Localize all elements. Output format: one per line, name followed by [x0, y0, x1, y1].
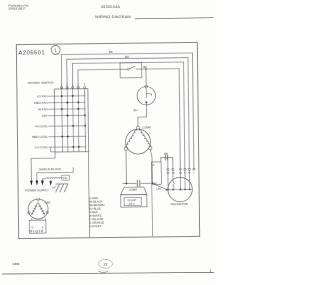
switch contact dots	[61, 95, 87, 148]
knob notch	[36, 199, 37, 202]
svg-text:MED COOL: MED COOL	[32, 135, 48, 139]
switch terminal numbers	[61, 84, 86, 86]
wire thermostat to dial	[145, 69, 147, 85]
wire row7 to box corner	[50, 147, 55, 152]
fan motor junction dots	[166, 189, 191, 191]
switch row MED COOL	[48, 135, 85, 137]
svg-text:MED FAN: MED FAN	[34, 101, 47, 105]
thermostat box	[120, 63, 142, 78]
svg-text:2: 2	[66, 84, 68, 86]
compressor terminal C	[124, 147, 127, 150]
fan motor winding squiggle	[173, 182, 175, 188]
svg-text:W: W	[188, 173, 191, 175]
svg-text:CH: CH	[63, 176, 67, 180]
wire compressor R down	[150, 150, 152, 183]
fan motor internal wires	[166, 170, 192, 189]
knob bottom terminals	[30, 230, 43, 233]
fan motor terminals	[167, 168, 195, 171]
switch row OFF	[48, 114, 85, 116]
svg-text:1: 1	[42, 225, 44, 229]
wire top run 3	[72, 62, 185, 171]
thermostat dial circle	[137, 86, 156, 105]
svg-text:5995315917: 5995315917	[9, 7, 26, 11]
svg-text:3: 3	[72, 84, 74, 86]
svg-text:OFF: OFF	[45, 201, 51, 205]
svg-text:LIN: LIN	[156, 187, 160, 191]
knob pointer left leg	[31, 202, 45, 214]
switch column 5	[84, 89, 87, 152]
svg-text:BR: BR	[164, 152, 168, 156]
svg-text:5: 5	[84, 84, 86, 86]
run capacitor line	[122, 182, 136, 184]
svg-text:2: 2	[210, 269, 212, 273]
svg-text:COMP: COMP	[129, 187, 138, 191]
wire color legend	[89, 196, 105, 228]
thermostat switch symbol	[120, 68, 126, 70]
svg-text:4: 4	[77, 84, 79, 86]
svg-text:S: S	[153, 164, 155, 167]
switch row HI COOL	[48, 125, 85, 127]
switch row LO FAN	[48, 95, 85, 97]
thermostat dial top terminal	[145, 85, 148, 88]
svg-text:Y: Y	[193, 173, 195, 175]
wire ground branch	[42, 179, 45, 185]
compressor winding right	[139, 130, 151, 147]
switch inner columns	[62, 89, 79, 152]
balloon 1	[51, 45, 60, 54]
svg-text:A206501: A206501	[18, 50, 45, 56]
wire to fan motor diagonal	[153, 183, 167, 189]
svg-text:V-VIOLET: V-VIOLET	[89, 224, 102, 228]
svg-text:BR: BR	[167, 173, 170, 175]
fan capacitor plates	[164, 155, 166, 161]
header publication number	[9, 3, 30, 10]
compressor winding left	[126, 130, 138, 147]
svg-text:BK: BK	[109, 50, 113, 54]
compressor top terminal	[136, 126, 139, 129]
svg-text:OFF: OFF	[42, 114, 48, 118]
svg-text:BU: BU	[172, 173, 175, 175]
power plug prong 3	[41, 180, 44, 185]
svg-text:3530034A: 3530034A	[101, 5, 121, 9]
switch row MED FAN	[48, 101, 85, 103]
compressor circle	[125, 129, 150, 154]
svg-text:BK: BK	[179, 173, 182, 175]
wire switch to power line L1	[31, 152, 55, 181]
svg-text:GBM: GBM	[13, 262, 20, 266]
svg-text:POWER SUPPLY: POWER SUPPLY	[25, 188, 49, 192]
svg-text:COMP: COMP	[142, 126, 151, 130]
svg-text:WIRING DIAGRAM: WIRING DIAGRAM	[95, 14, 131, 19]
power plug prong 1	[30, 181, 33, 186]
svg-text:3: 3	[31, 225, 33, 229]
footer page balloon 13	[99, 259, 113, 268]
compressor terminal R	[149, 147, 152, 150]
knob body box	[30, 218, 32, 220]
rotary switch box	[54, 89, 88, 152]
switch top terminals	[61, 86, 86, 89]
footer rule	[2, 272, 214, 274]
junction dot run4	[145, 68, 147, 70]
svg-text:13: 13	[103, 262, 107, 266]
svg-text:1: 1	[54, 48, 57, 53]
fan motor circle	[168, 177, 193, 202]
svg-text:115 V: 115 V	[128, 203, 135, 206]
wire neutral run under shield label	[37, 167, 74, 180]
svg-text:BU: BU	[125, 55, 129, 59]
power plug ground prong	[49, 181, 51, 186]
wire top run 1	[61, 53, 194, 171]
svg-text:HI COOL: HI COOL	[35, 124, 48, 128]
svg-text:FAN MOTOR: FAN MOTOR	[171, 202, 188, 206]
svg-text:LO FAN: LO FAN	[37, 94, 48, 98]
fan capacitor bracket	[161, 158, 173, 170]
wire compressor C down	[125, 150, 127, 183]
switch row HI FAN	[48, 108, 85, 110]
heater element coil	[46, 177, 62, 178]
capacitor plates	[136, 180, 138, 187]
knob side terminals	[28, 212, 30, 214]
wire dial to compressor	[138, 103, 147, 126]
svg-text:LO COOL: LO COOL	[35, 145, 49, 149]
schematic border frame	[16, 42, 199, 238]
switch row LO COOL	[49, 146, 86, 148]
fan motor terminal labels	[167, 173, 195, 175]
wire top run 2	[67, 58, 190, 171]
header rule	[135, 18, 214, 19]
svg-text:BU: BU	[134, 108, 138, 112]
rotary knob circle	[28, 199, 48, 219]
svg-text:SHIELD BLOCK: SHIELD BLOCK	[39, 167, 62, 171]
component CH	[62, 175, 69, 180]
power plug prong 2	[36, 181, 39, 186]
chassis ground symbol	[56, 184, 69, 192]
fan capacitor box	[152, 162, 162, 185]
wire top run 4 through thermostat	[78, 69, 120, 88]
wire switch right down to bottom	[88, 152, 89, 238]
compressor capacitor 3D box	[121, 187, 147, 195]
junction dots	[126, 183, 128, 185]
svg-text:HI FAN: HI FAN	[38, 107, 48, 111]
svg-text:1: 1	[61, 85, 63, 87]
svg-text:ROTARY SWITCH: ROTARY SWITCH	[28, 81, 54, 85]
